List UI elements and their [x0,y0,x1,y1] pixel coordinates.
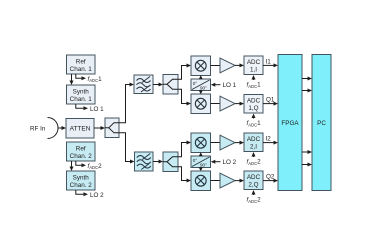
svg-text:2,I: 2,I [250,144,257,151]
svg-text:LO 1: LO 1 [90,106,104,113]
block FPGA [278,55,302,191]
wire splitter1 to filter1 [119,83,134,123]
clock arrow into ADC1Q [252,114,256,119]
FPGA to PC arrow 1 [302,77,312,81]
svg-text:ADC: ADC [247,59,261,66]
svg-text:I2: I2 [266,136,272,143]
svg-text:Chan. 1: Chan. 1 [70,66,93,73]
svg-text:1,I: 1,I [250,67,257,74]
block Synth Chan. 1 [67,85,96,104]
svg-text:Chan. 2: Chan. 2 [70,182,93,189]
svg-text:LO 2: LO 2 [90,192,104,199]
wire Ref2 to Synth2 [70,161,74,171]
svg-text:Ref: Ref [76,59,86,66]
phase shifter P2 (0/90) [191,156,211,168]
block PC [312,55,331,191]
svg-text:fADC1: fADC1 [247,120,262,127]
block ATTEN [66,119,94,139]
block Ref Chan. 2 [67,142,96,161]
svg-text:90°: 90° [200,162,207,167]
wire filter1 to splitter2 [153,83,163,87]
svg-text:Synth: Synth [73,89,90,96]
splitter S2 [163,75,178,95]
LO 1 arrow into phase1 [211,83,221,87]
svg-text:Q2: Q2 [266,174,275,181]
wire ADC1Q to FPGA [263,102,278,106]
svg-text:ADC: ADC [247,136,261,143]
wire ADC1I to FPGA [263,63,278,67]
block ADC 1,Q [244,95,263,114]
mixer M1I [191,56,211,76]
svg-text:Chan. 2: Chan. 2 [70,153,93,160]
amplifier A2Q [220,173,235,188]
svg-text:Ref: Ref [76,146,86,153]
svg-text:ATTEN: ATTEN [70,126,91,133]
antenna input arc [48,118,59,139]
wire filter2 to splitter3 [153,160,163,164]
svg-text:RF In: RF In [30,126,46,133]
svg-text:ADC: ADC [247,174,261,181]
wire Synth2 to LO2 label [76,190,88,196]
mixer M2I [191,133,211,153]
block ADC 2,Q [244,171,263,190]
svg-text:Chan. 1: Chan. 1 [70,96,93,103]
svg-text:ADC: ADC [247,98,261,105]
svg-text:0°: 0° [193,158,198,163]
block ADC 2,I [244,133,263,152]
wire splitter3 to mixer2I [178,141,191,157]
wire ADC2Q to FPGA [263,179,278,183]
wire Synth1 to LO1 label [76,104,88,110]
amplifier A2I [220,135,235,150]
wire arc to ATTEN [59,126,67,130]
svg-text:fADC2: fADC2 [247,159,262,166]
wire mixer1I to amp1I [211,65,221,67]
wire splitter1 to filter2 [119,133,135,164]
filter F2 (bandpass) [135,152,154,171]
svg-text:PC: PC [317,120,326,127]
arrow phase1 to mixer1I [199,75,203,79]
filter F1 (bandpass) [134,75,153,94]
wire amp1Q to ADC1Q [235,102,244,106]
svg-text:fADC2: fADC2 [88,163,103,170]
svg-text:0°: 0° [193,81,198,86]
wire Ref1 to Synth1 [70,74,74,85]
wire mixer2I to amp2I [211,142,221,144]
arrow phase2 to mixer2I [199,152,203,156]
FPGA to PC arrow 3 [302,150,312,154]
svg-text:90°: 90° [200,85,207,90]
svg-text:Synth: Synth [73,175,90,182]
wire splitter2 to mixer1Q [178,89,191,105]
phase shifter P1 (0/90) [191,79,211,91]
svg-text:Q1: Q1 [266,97,275,104]
splitter S3 [163,152,178,172]
wire mixer2Q to amp2Q [211,180,221,182]
wire amp2I to ADC2I [235,141,244,145]
svg-text:LO 1: LO 1 [223,82,237,89]
arrow phase2 to mixer2Q [199,167,203,171]
wire mixer1Q to amp1Q [211,103,221,105]
svg-text:LO 2: LO 2 [223,159,237,166]
wire ATTEN to splitter1 [94,126,105,130]
mixer M2Q [191,171,211,191]
mixer M1Q [191,94,211,114]
clock arrow into ADC2Q [252,190,256,195]
svg-text:FPGA: FPGA [281,120,299,127]
splitter S1 [105,118,119,138]
wire splitter3 to mixer2Q [178,167,191,183]
FPGA to PC arrow 2 [302,89,312,93]
arrow phase1 to mixer1Q [199,90,203,94]
block ADC 1,I [244,56,263,75]
wire splitter2 to mixer1I [178,64,191,80]
LO 2 arrow into phase2 [211,160,221,164]
svg-text:2,Q: 2,Q [248,182,258,189]
svg-text:I1: I1 [266,59,272,66]
amplifier A1I [220,58,235,73]
clock arrow into ADC1I [252,75,256,80]
wire amp2Q to ADC2Q [235,179,244,183]
clock arrow into ADC2I [252,152,256,157]
svg-text:fADC1: fADC1 [88,76,103,83]
wire ADC2I to FPGA [263,141,278,145]
amplifier A1Q [220,96,235,111]
block Ref Chan. 1 [67,55,96,74]
wire amp1I to ADC1I [235,63,244,67]
wire Ref2 to fADC2 label [76,161,86,167]
svg-text:1,Q: 1,Q [248,105,258,112]
block Synth Chan. 2 [67,171,96,190]
FPGA to PC arrow 4 [302,163,312,167]
wire Ref1 to fADC1 label [76,74,86,80]
svg-text:fADC1: fADC1 [247,82,262,89]
svg-text:fADC2: fADC2 [247,197,262,204]
